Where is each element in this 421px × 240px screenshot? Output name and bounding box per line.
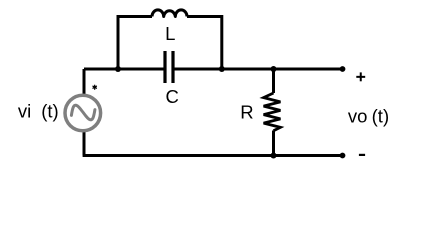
junction node: resistor bottom — [271, 153, 277, 159]
wire: bottom horizontal (return path) — [83, 154, 343, 157]
wire: top-right of LC loop — [187, 17, 222, 70]
resistor R bottom lead — [272, 131, 275, 156]
label + (plus sign) — [356, 76, 365, 78]
capacitor C right plate — [171, 51, 174, 83]
terminal node: output - — [340, 153, 346, 159]
wire: middle horizontal right (capacitor to output + terminal) — [174, 68, 343, 71]
svg-text:(t): (t) — [41, 100, 58, 121]
terminal node: output + — [340, 66, 346, 72]
resistor R zigzag — [264, 93, 281, 131]
svg-text:R: R — [240, 102, 253, 123]
inductor L — [152, 10, 187, 17]
voltage source sine wave — [71, 105, 95, 120]
wire: top-left vertical of LC loop — [118, 17, 152, 70]
junction node: right LC tap — [219, 66, 225, 72]
resistor R top lead — [272, 69, 275, 93]
wire: source top lead — [83, 69, 86, 97]
capacitor C left plate — [163, 51, 166, 83]
junction node: left LC tap — [115, 66, 121, 72]
label asterisk on source — [93, 85, 97, 89]
svg-text:vo: vo — [348, 105, 368, 126]
wire: middle horizontal left (source to capacitor) — [84, 68, 164, 71]
svg-text:C: C — [166, 86, 179, 107]
svg-text:L: L — [165, 23, 175, 44]
voltage source vi circle — [65, 95, 101, 131]
svg-text:(t): (t) — [372, 105, 389, 126]
svg-text:vi: vi — [18, 100, 31, 121]
label - (minus sign) — [359, 154, 365, 156]
wire: source bottom lead — [83, 129, 86, 156]
junction node: resistor top — [271, 66, 277, 72]
